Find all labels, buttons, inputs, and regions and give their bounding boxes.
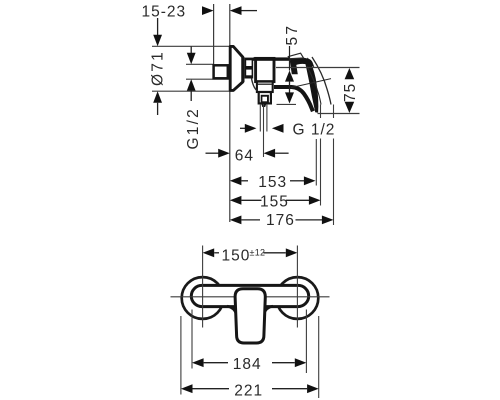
dim 64 arrow left — [206, 149, 230, 158]
svg-text:G1/2: G1/2 — [185, 107, 202, 149]
handle knuckle leg — [290, 61, 298, 75]
dim 57 arrow up — [285, 71, 294, 82]
dim 153 — [230, 174, 316, 191]
dim 176 — [230, 212, 334, 229]
dim 184 extension right — [305, 310, 307, 374]
dim 75 arrow up — [345, 68, 355, 79]
extension line pipe left edge — [213, 4, 215, 65]
left center vertical line — [202, 246, 204, 328]
svg-text:64: 64 — [235, 147, 254, 164]
outlet section — [257, 82, 273, 92]
dim G1/2 left extension bottom — [186, 78, 229, 80]
dim 184 — [192, 356, 306, 373]
handle front — [235, 289, 265, 343]
svg-text:176: 176 — [266, 212, 295, 229]
dim 221 extension right — [318, 316, 320, 398]
outlet inner line — [258, 83, 273, 85]
dim diameter 71 extension bottom — [152, 90, 230, 92]
svg-text:Ø71: Ø71 — [150, 50, 167, 86]
dim G1/2 left arrow down — [187, 47, 196, 65]
thread extension right — [266, 104, 268, 132]
handle tip extension — [315, 139, 317, 186]
dim G1/2 right arrow left — [240, 124, 256, 133]
dim 64 arrow right — [264, 149, 289, 158]
dim diameter 71 extension top — [152, 45, 230, 47]
dim 150 arrow right — [264, 248, 298, 257]
hex nut — [245, 58, 254, 79]
handle lower bar — [274, 87, 313, 111]
svg-text:75: 75 — [342, 83, 359, 102]
right escutcheon circle — [277, 277, 319, 319]
extension line 57 bottom — [277, 103, 297, 105]
valve body — [256, 58, 274, 81]
escutcheon cone — [230, 46, 243, 90]
left escutcheon circle — [182, 277, 224, 319]
horizontal centerline — [171, 296, 330, 298]
handle lever top bar — [290, 58, 314, 68]
handle back edge line — [291, 79, 331, 88]
dim G1/2 left extension top — [186, 63, 214, 65]
dim 57 arrow down — [285, 92, 294, 103]
dim 150 arrow left — [203, 248, 219, 257]
handle blade outline — [288, 53, 303, 59]
handle grip — [305, 58, 318, 113]
svg-text:57: 57 — [284, 24, 301, 46]
dim G1/2 right arrow right — [272, 124, 284, 133]
outlet centerline — [263, 104, 265, 157]
extension line 75 top — [276, 67, 360, 69]
thread extension left — [259, 104, 261, 132]
svg-text:221: 221 — [234, 382, 263, 399]
svg-text:184: 184 — [233, 356, 262, 373]
outlet connector — [259, 92, 271, 103]
wall line — [229, 4, 231, 222]
dim diameter 71 arrow up — [153, 91, 162, 115]
right center vertical line — [296, 246, 298, 328]
cone front face — [242, 57, 245, 82]
svg-text:±12: ±12 — [250, 247, 266, 257]
dim 15-23 arrow left — [202, 6, 214, 15]
left fillet — [227, 306, 236, 314]
svg-text:150: 150 — [222, 248, 251, 265]
dim 57 shaft — [289, 81, 291, 93]
dim 221 extension left — [180, 316, 182, 395]
handle outer extension — [333, 105, 335, 226]
body top edge thick — [253, 57, 294, 60]
handle outer curve — [312, 57, 331, 105]
body bar — [191, 285, 308, 306]
dim G1/2 left arrow up — [187, 79, 196, 101]
supply pipe stub — [214, 65, 228, 78]
handle front extension — [320, 105, 322, 206]
svg-text:153: 153 — [258, 174, 287, 191]
dim 75 arrow down — [345, 102, 355, 113]
dim diameter 71 arrow down — [153, 18, 162, 46]
dim 155 — [230, 193, 321, 210]
extension line 75 bottom — [318, 113, 360, 115]
svg-text:15-23: 15-23 — [142, 4, 187, 21]
dim 221 — [181, 382, 319, 399]
dim 184 extension left — [191, 310, 193, 369]
svg-text:G 1/2: G 1/2 — [293, 122, 336, 139]
body underside curve — [252, 79, 258, 91]
dim 15-23 arrow right — [230, 6, 257, 15]
outlet tip — [261, 104, 266, 107]
svg-text:155: 155 — [260, 193, 289, 210]
dim 57 leader — [289, 46, 291, 71]
right fillet — [264, 306, 273, 314]
handle inner curve — [307, 66, 321, 105]
